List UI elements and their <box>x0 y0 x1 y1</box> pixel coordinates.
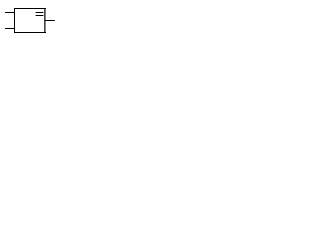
operator label "=" upper bar <box>36 12 44 13</box>
comparator block U1: box left edge <box>14 8 15 33</box>
wire: input pin 2 (bottom left) <box>5 28 14 29</box>
comparator block U1: box right edge <box>44 8 45 33</box>
comparator block U1: box bottom edge <box>14 32 46 33</box>
comparator block U1: box top edge <box>14 8 46 9</box>
background <box>0 0 67 43</box>
wire: output pin (right) <box>45 20 54 21</box>
wire: input pin 1 (top left) <box>5 12 14 13</box>
operator label "=" lower bar <box>36 15 44 16</box>
